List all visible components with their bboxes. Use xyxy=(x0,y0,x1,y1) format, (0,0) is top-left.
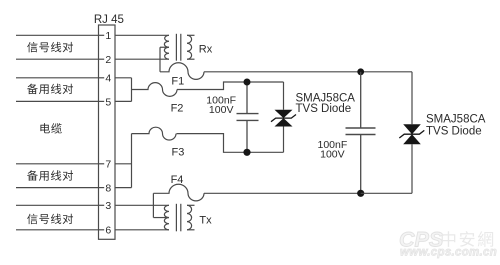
wire pin 3 to T2 primary top xyxy=(115,204,169,206)
wire F2 to network-1 top bus xyxy=(177,82,284,90)
svg-text:SMAJ58CA: SMAJ58CA xyxy=(426,113,486,125)
transformer T2 secondary stubs xyxy=(187,204,195,206)
fuse F4 xyxy=(153,184,204,201)
node junction top of C1 xyxy=(244,79,251,86)
wire pin 2 (cable side) xyxy=(16,58,99,60)
wire T1 center tap xyxy=(160,46,169,48)
fuse F1 xyxy=(160,63,204,80)
transformer T1 secondary winding xyxy=(187,35,192,59)
svg-text:2: 2 xyxy=(105,54,111,66)
pin 5 of RJ45 xyxy=(99,96,112,108)
capacitor C2 plates xyxy=(346,127,376,129)
wire top bus junction to corner xyxy=(361,71,412,73)
svg-text:3: 3 xyxy=(105,200,111,212)
svg-text:TVS Diode: TVS Diode xyxy=(426,125,482,137)
wire pin 2 to T1 primary bottom xyxy=(115,58,169,60)
wire pin 6 (cable side) xyxy=(16,229,99,231)
svg-text:Rx: Rx xyxy=(199,43,213,55)
pin 6 of RJ45 xyxy=(99,225,112,237)
wire T2 center tap xyxy=(153,217,169,219)
wire network-1 right leg top xyxy=(283,82,285,110)
capacitor C1 top lead xyxy=(246,82,248,114)
svg-text:F4: F4 xyxy=(171,174,184,186)
wire center tap up to F4 xyxy=(152,193,154,217)
svg-text:RJ 45: RJ 45 xyxy=(94,14,124,26)
wire pin 1 (cable side) xyxy=(16,34,99,36)
capacitor C2 bottom lead xyxy=(360,135,362,194)
wire F1 to top bus junction xyxy=(204,71,361,73)
svg-text:8: 8 xyxy=(105,183,111,195)
wire network-1 right leg bottom xyxy=(283,127,285,153)
label signal pair (pins 3-6) xyxy=(27,214,37,224)
svg-text:100V: 100V xyxy=(320,148,345,160)
wire pin 8 (cable side) xyxy=(16,187,99,189)
wire pin 5 (cable side) xyxy=(16,100,99,102)
pin 4 of RJ45 xyxy=(99,73,112,85)
label cable xyxy=(40,123,49,133)
node junction bottom of C1 xyxy=(243,149,250,156)
svg-text:5: 5 xyxy=(105,96,111,108)
transformer T1 primary winding xyxy=(164,35,169,59)
wire network-2 right leg bottom xyxy=(411,144,413,193)
connector RJ45 body xyxy=(99,25,116,239)
wire pin 1 to T1 primary top xyxy=(115,34,169,36)
capacitor C1 bottom lead xyxy=(246,120,248,152)
svg-text:7: 7 xyxy=(105,159,111,171)
svg-text:F2: F2 xyxy=(171,103,184,115)
transformer T1 core xyxy=(175,34,177,61)
svg-text:100V: 100V xyxy=(209,104,234,116)
wire pin 4 to bar xyxy=(115,77,132,79)
svg-text:TVS Diode: TVS Diode xyxy=(296,103,352,115)
TVS diode D2 xyxy=(399,124,424,144)
transformer T2 secondary winding xyxy=(187,205,192,230)
fuse F2 xyxy=(132,83,178,97)
label spare pair (pins 7-8) xyxy=(27,170,38,180)
pin 7 of RJ45 xyxy=(99,159,112,171)
wire pin 3 (cable side) xyxy=(16,204,99,206)
wire center tap down to F1 xyxy=(159,47,161,72)
svg-text:4: 4 xyxy=(105,73,111,85)
wire pin 7 (cable side) xyxy=(16,163,99,165)
svg-text:www.cps.com.cn: www.cps.com.cn xyxy=(400,247,497,259)
node junction top of C2 xyxy=(357,68,364,75)
svg-text:Tx: Tx xyxy=(199,215,212,227)
wire pin 6 to T2 primary bottom xyxy=(115,229,169,231)
capacitor C2 top lead xyxy=(360,72,362,128)
wire bottom bus F4 to junction xyxy=(204,192,361,194)
wire pin 8 to bar xyxy=(115,187,132,189)
svg-text:F3: F3 xyxy=(171,147,184,159)
transformer T1 secondary stubs xyxy=(187,34,195,36)
pin 3 of RJ45 xyxy=(99,200,112,212)
wire bottom bus junction to corner xyxy=(361,192,412,194)
label spare pair (pins 4-5) xyxy=(27,84,38,94)
wire pin 4 (cable side) xyxy=(16,77,99,79)
wire F3 to network-1 bottom bus xyxy=(177,134,284,153)
watermark chinese characters xyxy=(442,231,456,247)
svg-text:6: 6 xyxy=(105,225,111,237)
svg-text:F1: F1 xyxy=(171,75,184,87)
wire pin 5 to bar xyxy=(115,100,132,102)
node junction bottom of C2 xyxy=(357,190,364,197)
transformer T2 core xyxy=(175,204,177,232)
svg-text:1: 1 xyxy=(105,30,111,42)
label signal pair (pins 1-2) xyxy=(27,42,37,52)
junction bar pins 7-8 xyxy=(131,134,133,188)
junction bar pins 4-5 xyxy=(131,78,133,102)
pin 8 of RJ45 xyxy=(99,183,112,195)
wire pin 7 to bar xyxy=(115,163,132,165)
transformer T2 primary winding xyxy=(164,205,169,230)
pin 1 of RJ45 xyxy=(99,30,112,42)
fuse F3 xyxy=(132,127,177,140)
pin 2 of RJ45 xyxy=(99,54,112,66)
capacitor C1 plates xyxy=(237,113,259,115)
TVS diode D1 xyxy=(271,110,296,127)
wire network-2 right leg top xyxy=(411,72,413,124)
